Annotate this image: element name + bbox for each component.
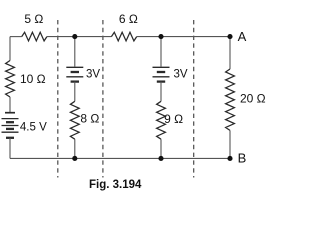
svg-text:6 Ω: 6 Ω xyxy=(119,12,138,26)
svg-text:9 Ω: 9 Ω xyxy=(164,112,183,126)
svg-text:A: A xyxy=(238,29,247,44)
svg-text:Fig. 3.194: Fig. 3.194 xyxy=(89,179,142,191)
svg-text:B: B xyxy=(238,150,247,165)
svg-text:4.5 V: 4.5 V xyxy=(20,122,47,134)
svg-text:3V: 3V xyxy=(86,69,100,81)
svg-text:10 Ω: 10 Ω xyxy=(20,72,46,86)
svg-text:5 Ω: 5 Ω xyxy=(24,12,43,26)
svg-text:8 Ω: 8 Ω xyxy=(80,111,99,125)
svg-text:20 Ω: 20 Ω xyxy=(240,92,266,106)
svg-text:3V: 3V xyxy=(174,69,188,81)
